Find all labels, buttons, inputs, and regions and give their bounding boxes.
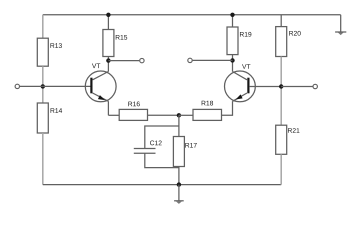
wire top rail <box>43 14 341 16</box>
wire R19 top stub <box>232 15 234 27</box>
wire R18 left lead <box>179 114 193 116</box>
wire R16 right lead <box>148 114 179 116</box>
wire C12 top branch <box>145 126 179 148</box>
wire to mid-right terminal <box>193 59 233 61</box>
resistor R17 <box>173 137 196 167</box>
wire C12 bottom branch <box>145 153 179 167</box>
terminal output left <box>140 58 144 62</box>
ground bottom <box>174 201 184 204</box>
resistor R14 <box>37 103 62 133</box>
wire R19 bottom to collector <box>232 55 234 72</box>
wire to right terminal <box>281 86 312 88</box>
node ground junction <box>177 182 181 186</box>
resistor R21 <box>276 125 300 154</box>
wire bottom rail <box>43 184 281 186</box>
node left-input junction <box>41 84 45 88</box>
node collector VT2 junction <box>230 58 234 62</box>
wire base VT1 <box>20 85 92 87</box>
node A emitter junction <box>177 113 181 117</box>
wire top-right ground drop <box>340 15 342 32</box>
node top rail left junction <box>106 13 110 17</box>
wire left trunk upper <box>42 15 44 38</box>
wire left trunk lower <box>42 133 44 185</box>
resistor R13 <box>37 38 62 66</box>
resistor R16 <box>119 102 147 121</box>
node top rail right junction <box>230 13 234 17</box>
ground top-right <box>335 32 346 35</box>
wire base VT2 <box>249 86 281 88</box>
wire R21 bottom lead <box>280 154 282 184</box>
wire right trunk middle <box>280 57 282 126</box>
wire R20 top stub <box>280 15 282 27</box>
capacitor C12 <box>134 141 162 154</box>
resistor R15 <box>103 30 127 57</box>
wire left trunk middle <box>42 66 44 103</box>
resistor R18 <box>193 101 222 121</box>
wire R15 top stub <box>107 15 109 30</box>
wire ground stub <box>178 185 180 201</box>
node right output junction <box>279 84 283 88</box>
transistor Q1 VT <box>85 63 116 101</box>
terminal input left <box>15 84 19 88</box>
resistor R19 <box>227 27 251 55</box>
wire R15 bottom to collector <box>107 57 109 72</box>
wire R16 left lead <box>108 114 119 116</box>
node collector VT1 junction <box>106 58 110 62</box>
terminal output far right <box>313 84 317 88</box>
resistor R20 <box>276 27 301 57</box>
terminal output right <box>188 58 192 62</box>
wire node A to R17 <box>178 115 180 136</box>
wire emitter VT1 down <box>107 101 109 115</box>
wire R18 right lead <box>222 101 233 115</box>
wire R17 bottom lead <box>178 167 180 185</box>
transistor Q2 VT <box>225 64 256 102</box>
wire to mid-left terminal <box>108 60 139 62</box>
